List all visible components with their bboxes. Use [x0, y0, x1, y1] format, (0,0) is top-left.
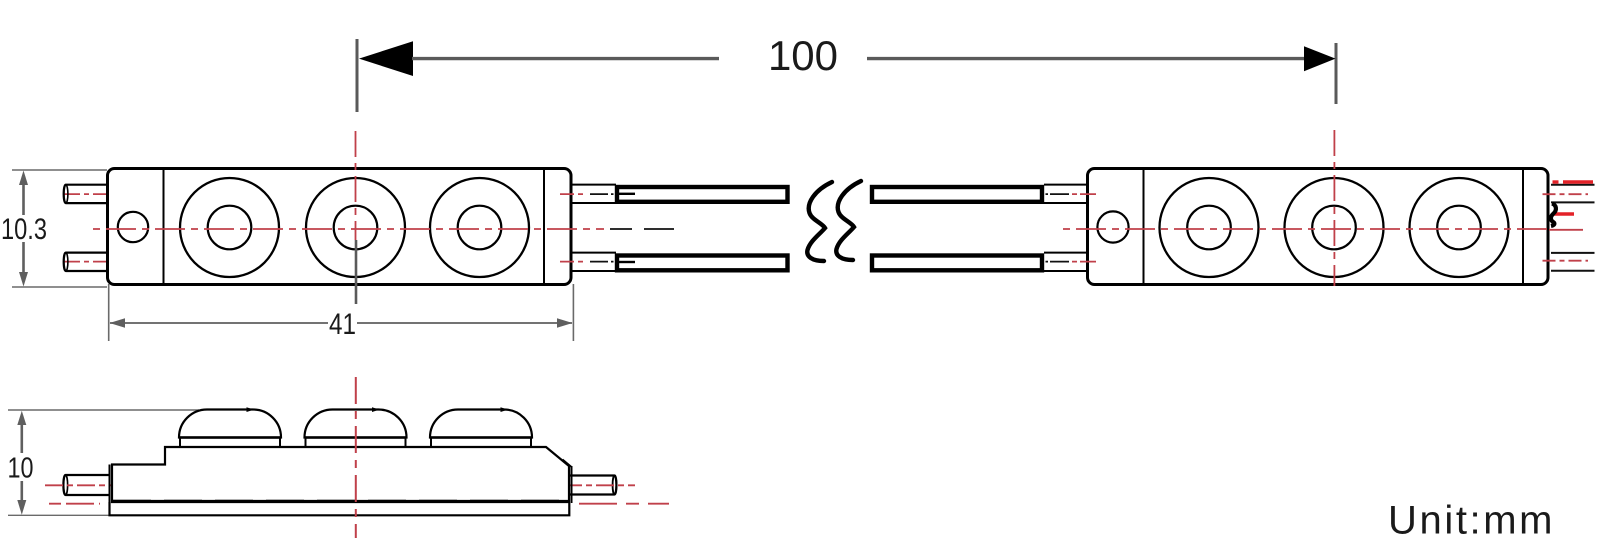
- dimension 100 left extension tick: [356, 39, 359, 112]
- svg-text:10: 10: [8, 453, 34, 485]
- side view bottom hidden dashes: [113, 500, 568, 503]
- module 1 left cap line: [163, 169, 165, 285]
- side view dome 3: [430, 410, 532, 448]
- dimension 41 line right part: [357, 322, 572, 324]
- centerline black dashes after module 1: [610, 228, 674, 230]
- side view left stub red centerline: [45, 484, 120, 486]
- dome 3 arrow mark: [501, 407, 509, 412]
- module 1 center extension line below: [355, 240, 358, 304]
- dimension 100 right extension tick: [1335, 43, 1338, 104]
- module 1 LED lens 2 outer: [306, 178, 405, 277]
- dimension 41 right arrow: [557, 318, 573, 327]
- bottom tube centerline red then black: [560, 261, 614, 263]
- dimension 100 left arrow: [359, 41, 413, 76]
- side view bottom red centerline right: [579, 503, 669, 505]
- module 1 left bottom lead red centerline: [64, 261, 116, 263]
- module 1 right bottom tube: [571, 253, 616, 271]
- module 1 screw hole: [118, 212, 148, 242]
- side view right wire stub: [570, 476, 616, 495]
- dimension 41 right extension line: [572, 284, 574, 341]
- cable left top: [617, 187, 788, 202]
- dimension 41 left extension line: [108, 284, 110, 341]
- module 2 right exit wires black outlines: [1551, 185, 1595, 271]
- dimension 100 left line: [412, 57, 719, 60]
- side view: dimension 10 top extension line: [8, 409, 199, 411]
- top tube centerline red then black: [560, 193, 614, 195]
- module 2 LED lens 3 outer: [1410, 178, 1509, 277]
- module 2 body outline: [1088, 169, 1549, 285]
- cable right top: [872, 187, 1042, 202]
- side view outer right edge: [571, 466, 573, 503]
- dimension 41 left arrow: [110, 318, 126, 327]
- module 1 left top lead red centerline: [64, 193, 116, 195]
- module 2 tube red centerlines: [1072, 194, 1096, 262]
- module 2 LED lens 2 inner: [1312, 206, 1356, 250]
- dimension 10 down arrow: [17, 481, 26, 515]
- module 1 LED lens 3 outer: [430, 178, 529, 277]
- dimension 10 up arrow: [17, 411, 26, 453]
- side view slope outer line: [563, 460, 572, 468]
- dimension 10.3 top extension line: [12, 169, 107, 171]
- module 2 LED lens 1 inner: [1187, 206, 1231, 250]
- cable left bottom conductor: [619, 261, 635, 263]
- side view body silhouette: [112, 447, 569, 502]
- side view top surface: [165, 446, 546, 448]
- dimension 41 line left part: [110, 322, 328, 324]
- module 2 left cap line: [1143, 169, 1145, 285]
- module 1 LED lens 2 inner: [334, 206, 378, 250]
- side view: dimension 10 bottom extension line: [8, 514, 110, 516]
- module 1 right cap line: [543, 169, 545, 285]
- wire break squiggle at right edge: [1551, 204, 1556, 227]
- break symbol left curve: [807, 182, 832, 261]
- module 2 LED lens 1 outer: [1160, 178, 1259, 277]
- module 1 body outline: [108, 169, 572, 285]
- module 1 left top wire stub: [64, 185, 108, 203]
- dimension 10.3 bottom extension line: [12, 286, 107, 288]
- dome 1 arrow mark: [247, 407, 255, 412]
- module 2 screw hole: [1097, 211, 1128, 242]
- module 2 LED lens 2 outer: [1285, 178, 1384, 277]
- module 2 right exit red wire marks: [1553, 182, 1594, 214]
- module 1 horizontal centerline: [93, 228, 604, 230]
- module 1 right top tube: [571, 185, 616, 203]
- side view left wire stub: [63, 475, 110, 495]
- module 2 vertical centerline: [1333, 130, 1335, 286]
- module 2 left junction black dashes: [1046, 194, 1070, 262]
- dome 2 arrow mark: [372, 407, 380, 412]
- side view bottom inner line: [113, 500, 568, 502]
- svg-text:100: 100: [768, 32, 838, 79]
- cable left bottom: [617, 256, 788, 271]
- dimension 10.3 up arrow: [19, 171, 28, 216]
- svg-text:10.3: 10.3: [1, 213, 47, 246]
- module 1 LED lens 1 inner: [208, 206, 252, 250]
- side view outer left edge: [109, 465, 111, 516]
- side view bottom plate: [110, 502, 570, 515]
- module 2 horizontal centerline: [1063, 228, 1550, 230]
- side view vertical centerline: [355, 377, 357, 538]
- side view dome 2: [305, 410, 407, 448]
- module 2 right exit red centerlines: [1543, 194, 1589, 261]
- module 1 left bottom wire stub: [64, 253, 108, 271]
- side view dome 1: [179, 410, 281, 448]
- module 2 left top tube: [1044, 185, 1088, 271]
- module 1 LED lens 1 outer: [180, 178, 279, 277]
- module 1 LED lens 3 inner: [458, 206, 502, 250]
- svg-text:Unit:mm: Unit:mm: [1388, 499, 1555, 538]
- break symbol right curve: [836, 181, 861, 260]
- dimension 100 right line: [867, 57, 1305, 60]
- side view right stub red centerline: [564, 484, 635, 486]
- side view bottom red centerline left: [49, 503, 100, 505]
- cable right bottom: [872, 256, 1042, 271]
- svg-text:41: 41: [329, 308, 356, 341]
- module 2 right cap line: [1522, 169, 1524, 285]
- cable left top conductor: [619, 193, 635, 195]
- module 1 vertical centerline: [355, 131, 357, 240]
- module 2 LED lens 3 inner: [1437, 206, 1481, 250]
- dimension 10.3 down arrow: [19, 242, 28, 287]
- dimension 100 right arrow: [1304, 46, 1336, 71]
